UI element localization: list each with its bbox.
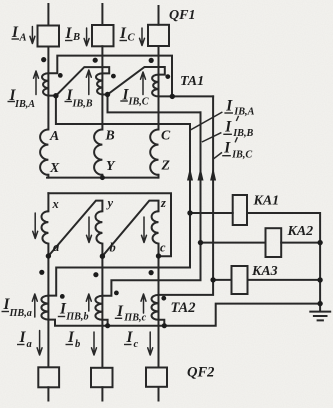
svg-text:QF1: QF1 <box>169 8 195 23</box>
svg-text:C: C <box>128 32 136 43</box>
svg-text:c: c <box>134 339 139 350</box>
svg-text:z: z <box>160 196 166 210</box>
svg-text:X: X <box>49 160 60 175</box>
svg-text:B: B <box>105 128 115 143</box>
svg-text:TA2: TA2 <box>171 300 196 316</box>
svg-text:B: B <box>72 32 80 43</box>
svg-text:I: I <box>224 118 232 135</box>
svg-text:IB,B: IB,B <box>72 99 93 110</box>
svg-text:I: I <box>19 329 27 346</box>
svg-text:QF2: QF2 <box>187 365 214 381</box>
svg-text:I: I <box>225 98 233 115</box>
svg-text:IB,C: IB,C <box>231 150 252 161</box>
svg-text:I: I <box>65 25 73 42</box>
svg-text:KA3: KA3 <box>251 264 278 279</box>
svg-text:I: I <box>126 329 134 346</box>
svg-text:I: I <box>67 329 75 346</box>
svg-text:A: A <box>49 128 59 143</box>
svg-text:b: b <box>110 241 116 255</box>
svg-text:c: c <box>160 241 166 255</box>
svg-text:A: A <box>19 33 27 44</box>
svg-text:x: x <box>52 197 59 211</box>
svg-text:ПВ,c: ПВ,c <box>123 313 146 324</box>
svg-text:I: I <box>119 25 127 42</box>
svg-text:KA1: KA1 <box>253 194 280 209</box>
svg-text:y: y <box>106 196 114 210</box>
svg-text:TA1: TA1 <box>180 74 204 89</box>
svg-text:b: b <box>75 339 80 350</box>
svg-text:a: a <box>53 240 59 254</box>
svg-text:a: a <box>27 339 33 350</box>
svg-text:I: I <box>116 303 124 320</box>
svg-text:IB,B: IB,B <box>232 128 253 139</box>
svg-text:KA2: KA2 <box>287 224 314 239</box>
svg-text:IB,A: IB,A <box>233 107 254 118</box>
svg-text:C: C <box>161 128 171 143</box>
svg-text:IB,A: IB,A <box>14 99 35 110</box>
svg-text:IB,C: IB,C <box>128 96 149 107</box>
svg-text:I: I <box>223 140 231 157</box>
svg-text:ПВ,b: ПВ,b <box>65 312 88 323</box>
svg-text:Z: Z <box>161 158 171 173</box>
svg-text:ПВ,a: ПВ,a <box>9 308 32 319</box>
